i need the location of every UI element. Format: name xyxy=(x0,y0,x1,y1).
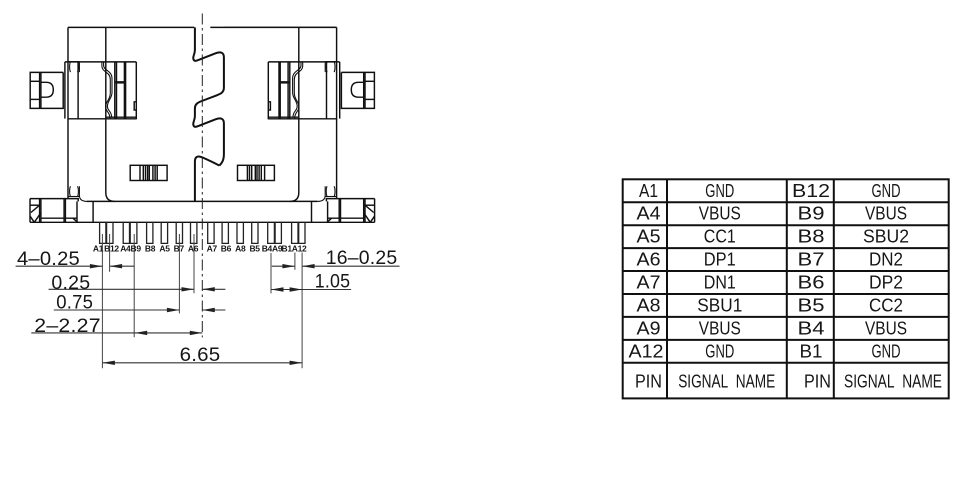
svg-text:A8: A8 xyxy=(637,295,661,316)
svg-text:B1A12: B1A12 xyxy=(282,244,308,254)
svg-text:GND: GND xyxy=(705,180,734,201)
svg-text:4–0.25: 4–0.25 xyxy=(17,249,80,270)
svg-text:PIN: PIN xyxy=(804,370,831,391)
svg-text:A7: A7 xyxy=(637,272,661,293)
svg-text:A9: A9 xyxy=(637,317,661,338)
svg-text:0.25: 0.25 xyxy=(51,273,90,294)
svg-text:B8: B8 xyxy=(145,244,156,254)
svg-text:B12: B12 xyxy=(104,244,119,254)
svg-text:B9: B9 xyxy=(798,203,825,224)
svg-text:VBUS: VBUS xyxy=(865,317,907,338)
svg-text:GND: GND xyxy=(872,180,901,201)
svg-text:DN1: DN1 xyxy=(704,272,736,293)
svg-text:SIGNAL NAME: SIGNAL NAME xyxy=(678,370,775,391)
svg-text:DN2: DN2 xyxy=(869,249,903,270)
svg-text:B6: B6 xyxy=(221,244,232,254)
svg-text:A5: A5 xyxy=(637,226,661,247)
svg-text:A7: A7 xyxy=(207,244,218,254)
svg-text:CC2: CC2 xyxy=(869,295,903,316)
svg-text:B7: B7 xyxy=(174,244,185,254)
svg-text:B5: B5 xyxy=(249,244,260,254)
svg-text:SIGNAL NAME: SIGNAL NAME xyxy=(844,370,942,391)
svg-text:A5: A5 xyxy=(159,244,170,254)
svg-text:B1: B1 xyxy=(800,340,823,361)
svg-text:A4: A4 xyxy=(637,203,661,224)
svg-text:VBUS: VBUS xyxy=(865,203,907,224)
svg-text:A8: A8 xyxy=(235,244,246,254)
svg-text:2–2.27: 2–2.27 xyxy=(34,316,101,337)
svg-text:16–0.25: 16–0.25 xyxy=(326,248,398,269)
svg-text:SBU2: SBU2 xyxy=(863,226,909,247)
svg-text:GND: GND xyxy=(872,340,901,361)
svg-text:DP2: DP2 xyxy=(869,272,903,293)
svg-text:B4A9: B4A9 xyxy=(262,244,283,254)
svg-text:CC1: CC1 xyxy=(704,226,736,247)
svg-text:B6: B6 xyxy=(798,272,825,293)
svg-text:A1: A1 xyxy=(639,180,658,201)
svg-text:B12: B12 xyxy=(792,180,830,201)
svg-text:B7: B7 xyxy=(798,249,825,270)
svg-text:1.05: 1.05 xyxy=(315,272,350,293)
svg-text:GND: GND xyxy=(705,340,734,361)
svg-text:0.75: 0.75 xyxy=(56,293,93,314)
svg-text:DP1: DP1 xyxy=(704,249,736,270)
svg-text:A1: A1 xyxy=(93,244,104,254)
svg-text:6.65: 6.65 xyxy=(180,345,221,366)
svg-text:A4B9: A4B9 xyxy=(120,244,141,254)
svg-text:VBUS: VBUS xyxy=(699,317,741,338)
svg-text:SBU1: SBU1 xyxy=(697,295,742,316)
svg-text:B5: B5 xyxy=(798,295,825,316)
svg-text:A6: A6 xyxy=(637,249,661,270)
svg-text:VBUS: VBUS xyxy=(699,203,741,224)
svg-text:A6: A6 xyxy=(188,244,199,254)
svg-text:B8: B8 xyxy=(798,226,825,247)
svg-text:PIN: PIN xyxy=(635,370,662,391)
svg-text:A12: A12 xyxy=(629,340,664,361)
svg-text:B4: B4 xyxy=(798,317,825,338)
